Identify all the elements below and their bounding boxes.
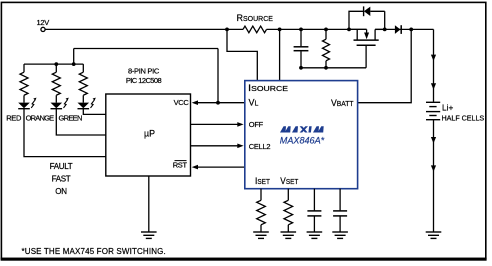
12V terminal — [41, 27, 45, 31]
resistor R5 green — [79, 64, 87, 103]
node J1 before RSOURCE — [225, 28, 229, 32]
capacitor C2 — [307, 189, 321, 232]
wire VL feed drop — [217, 49, 219, 103]
svg-text:ORANGE: ORANGE — [26, 114, 55, 123]
arrow current 4 — [431, 165, 436, 171]
wire PIC ground — [148, 176, 150, 232]
wire RST — [198, 166, 245, 168]
battery BT1 Li+ half cells — [426, 102, 440, 119]
node J4 res top — [324, 28, 328, 32]
wire rail RSOURCE to MOSFET — [267, 28, 367, 30]
wire ISOURCE left feed — [227, 29, 257, 80]
node LED rail 12V drop — [72, 62, 76, 66]
node J7 after D2 — [409, 28, 413, 32]
wire OFF — [191, 123, 238, 125]
svg-text:CELL2: CELL2 — [249, 142, 271, 151]
resistor RSOURCE — [243, 26, 267, 33]
node J6 gate-res — [324, 66, 328, 70]
ground PIC — [141, 232, 157, 238]
svg-text:ON: ON — [55, 187, 67, 196]
LED red — [18, 98, 36, 109]
wire below battery — [433, 120, 435, 232]
wire red to PIC — [24, 109, 106, 157]
svg-text:µP: µP — [144, 128, 155, 138]
ground battery — [426, 232, 442, 238]
capacitor C3 — [333, 189, 347, 232]
svg-text:*USE THE MAX745 FOR SWITCHING.: *USE THE MAX745 FOR SWITCHING. — [22, 247, 166, 256]
overline RST — [175, 160, 187, 162]
resistor R7 VSET — [284, 189, 293, 232]
svg-text:MAX846A*: MAX846A* — [280, 135, 325, 146]
ground C2 — [307, 232, 323, 238]
arrow into CELL2 — [237, 144, 243, 149]
svg-text:GREEN: GREEN — [59, 114, 82, 123]
wire green to PIC — [83, 109, 106, 115]
wire ISOURCE right feed — [279, 29, 281, 80]
svg-text:FAST: FAST — [52, 175, 71, 184]
arrow into OFF — [237, 122, 243, 127]
arrow current 3 — [431, 137, 436, 143]
wire CELL2 — [191, 145, 238, 147]
wire LED rail drop — [73, 49, 75, 65]
LED green — [78, 98, 96, 109]
logo MAXIM — [280, 126, 324, 132]
diode D2 series — [395, 25, 401, 34]
IC U2 MAX846A box — [245, 81, 358, 189]
svg-text:RST: RST — [173, 160, 188, 169]
wire VL feed horizontal — [74, 48, 218, 50]
ground ISET — [253, 232, 269, 238]
arrow into RST — [192, 165, 198, 170]
node J3 cap top — [299, 28, 303, 32]
node LED rail orange — [54, 62, 58, 66]
arrow into VCC — [192, 100, 198, 105]
wire battery drop — [433, 29, 435, 101]
ground C3 — [332, 232, 348, 238]
node VL junction — [216, 101, 220, 105]
svg-text:Li+: Li+ — [442, 103, 453, 113]
LED orange — [51, 98, 69, 109]
arrow current 2 — [431, 83, 436, 89]
ground VSET — [281, 232, 297, 238]
node Q1 source — [347, 28, 351, 32]
svg-text:PIC 12C508: PIC 12C508 — [126, 76, 162, 85]
op-amp U1 PIC box — [106, 94, 191, 176]
node J5 gate-cap — [299, 66, 303, 70]
arrow current 1 — [431, 55, 436, 61]
node Q1 drain — [383, 28, 387, 32]
wire orange to PIC — [56, 109, 106, 135]
svg-text:OFF: OFF — [249, 120, 264, 129]
wire VCC-VL — [198, 102, 245, 104]
node J2 after RSOURCE — [278, 28, 282, 32]
wire rail MOSFET to battery corner — [375, 28, 433, 30]
resistor R3 red — [20, 64, 28, 103]
svg-text:RED: RED — [6, 114, 22, 123]
svg-text:12V: 12V — [37, 18, 50, 27]
resistor R2 gate — [323, 29, 330, 67]
wire 12V rail left of RSOURCE — [45, 28, 243, 30]
wire LED rail — [24, 63, 83, 65]
diode D1 body diode — [349, 6, 385, 29]
svg-text:FAULT: FAULT — [50, 162, 73, 171]
svg-text:8-PIN PIC: 8-PIN PIC — [128, 66, 160, 75]
wire gate line — [301, 67, 366, 69]
resistor R6 ISET — [257, 189, 266, 232]
wire VBATT — [358, 29, 411, 102]
svg-text:VCC: VCC — [174, 98, 190, 107]
capacitor C1 — [294, 29, 309, 67]
transistor Q1 PMOS — [349, 29, 385, 67]
svg-text:HALF CELLS: HALF CELLS — [442, 113, 485, 122]
resistor R4 orange — [52, 64, 60, 103]
